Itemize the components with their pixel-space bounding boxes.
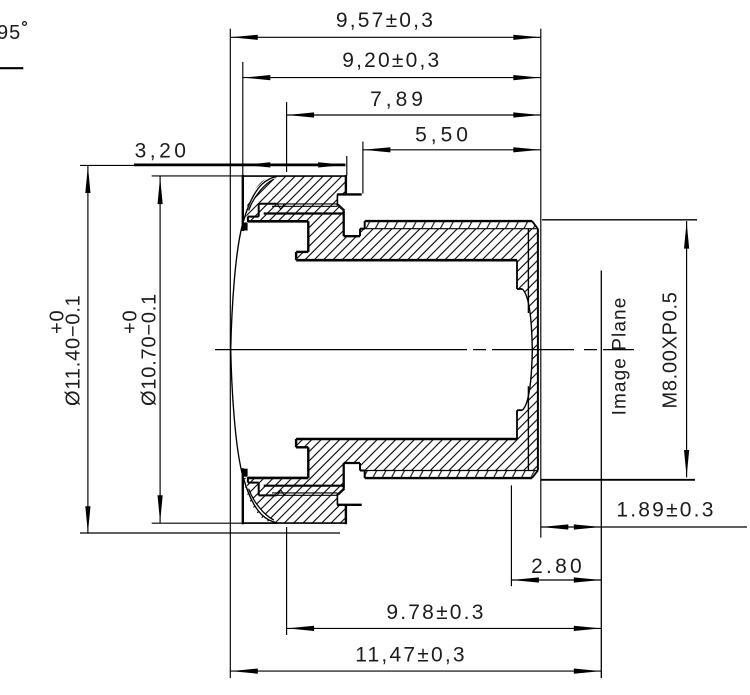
dome rim inner edge (bottom) bbox=[249, 489, 274, 520]
svg-text:M8.00XP0.5: M8.00XP0.5 bbox=[660, 291, 682, 408]
svg-text:Image Plane: Image Plane bbox=[610, 297, 631, 416]
dome rim sliver (bottom) bbox=[243, 477, 277, 523]
front cap sectioned body (top) bbox=[243, 176, 346, 221]
svg-text:95: 95 bbox=[0, 22, 21, 44]
extension line front vertex bbox=[229, 29, 231, 678]
svg-text:+0: +0 bbox=[120, 310, 142, 334]
optical axis centerline bbox=[215, 349, 634, 351]
dimension 1,89±0,3 bbox=[541, 526, 747, 528]
dome outer surface (bottom) bbox=[231, 350, 277, 523]
dimension O10.70 vertical bbox=[159, 177, 161, 523]
rear lens surface (bottom) bbox=[522, 350, 532, 411]
extension line 7.89/9.78 front bbox=[286, 102, 288, 172]
barrel outline (top) bbox=[337, 193, 362, 195]
dimension O11.40 vertical bbox=[87, 165, 89, 533]
front cap sectioned body (bottom) bbox=[243, 478, 346, 523]
cap face corner blob (top) bbox=[242, 223, 248, 231]
svg-text:2.80: 2.80 bbox=[531, 555, 585, 578]
spacer ring lines (bottom) bbox=[277, 494, 338, 496]
dimension 9,20±0,3 bbox=[243, 77, 541, 79]
dimension 7,89 bbox=[287, 114, 541, 116]
retainer ring steps (bottom) bbox=[259, 494, 277, 496]
extension line cap face bbox=[242, 62, 244, 176]
extension line O11.40 top bbox=[80, 164, 232, 166]
dome rim inner edge (top) bbox=[249, 179, 274, 210]
barrel sectioned body (bottom) bbox=[248, 350, 538, 496]
svg-text:1.89±0.3: 1.89±0.3 bbox=[616, 499, 715, 522]
extension line 5.50 bbox=[362, 142, 364, 194]
barrel sectioned body (top) bbox=[248, 204, 538, 350]
extension line 2.80 bbox=[510, 485, 512, 586]
extension line M8 bottom bbox=[541, 479, 695, 481]
svg-text:Ø10.70−0.1: Ø10.70−0.1 bbox=[139, 293, 161, 406]
svg-text:9.78±0.3: 9.78±0.3 bbox=[386, 601, 485, 624]
extension line 3.20 stub bbox=[346, 156, 348, 176]
front cap outline (bottom) bbox=[243, 522, 346, 524]
svg-text:9,57±0,3: 9,57±0,3 bbox=[336, 9, 435, 32]
extension line O10.70 top bbox=[152, 175, 243, 177]
barrel outline (bottom) bbox=[337, 504, 362, 506]
dimension M8.00XP0.5 vertical bbox=[686, 221, 688, 477]
image plane line bbox=[600, 271, 602, 679]
svg-text:+0: +0 bbox=[47, 310, 69, 334]
retainer ring steps (top) bbox=[259, 203, 277, 205]
dome rim sliver (top) bbox=[243, 176, 277, 222]
extension line M8 top bbox=[542, 219, 697, 221]
front cap outline (top) bbox=[243, 175, 346, 177]
extension line O11.40 bottom bbox=[80, 532, 340, 534]
svg-text:7,89: 7,89 bbox=[370, 88, 427, 111]
cap face corner blob (bottom) bbox=[242, 469, 248, 477]
dimension 5,50 bbox=[363, 149, 541, 151]
extension line rear face bbox=[540, 29, 542, 538]
dimension 3,20 bbox=[134, 163, 346, 166]
dimension 9,57±0,3 bbox=[230, 36, 541, 38]
svg-text:9,20±0,3: 9,20±0,3 bbox=[342, 49, 441, 72]
dome outer surface (top) bbox=[231, 176, 277, 349]
M8 thread band (top) bbox=[365, 221, 538, 229]
dimension 9,78±0,3 bbox=[287, 627, 602, 629]
dimension 11,47±0,3 bbox=[230, 670, 601, 672]
svg-text:11,47±0,3: 11,47±0,3 bbox=[355, 644, 467, 667]
svg-text:3,20: 3,20 bbox=[135, 140, 190, 163]
corner line fragment bbox=[0, 67, 23, 69]
dimension 2,80 bbox=[511, 579, 601, 581]
spacer ring lines (top) bbox=[277, 203, 338, 205]
M8 thread band (bottom) bbox=[365, 470, 538, 478]
rear lens surface (top) bbox=[522, 289, 532, 350]
extension line O10.70 bottom bbox=[152, 522, 277, 524]
svg-text:5,50: 5,50 bbox=[415, 124, 472, 147]
